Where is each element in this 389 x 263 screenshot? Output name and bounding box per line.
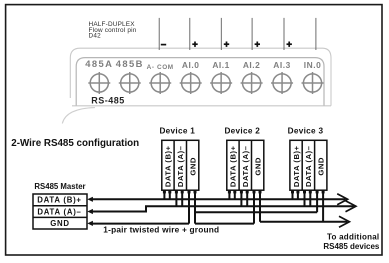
svg-text:DATA (B)+: DATA (B)+: [164, 145, 173, 187]
svg-text:AI.0: AI.0: [182, 60, 200, 70]
svg-text:GND: GND: [253, 157, 262, 176]
svg-text:Device 3: Device 3: [288, 126, 324, 135]
svg-text:A- COM: A- COM: [147, 64, 174, 71]
svg-text:RS485 Master: RS485 Master: [34, 182, 85, 191]
svg-text:DATA (B)+: DATA (B)+: [37, 196, 82, 205]
svg-text:1-pair twisted wire + ground: 1-pair twisted wire + ground: [103, 225, 219, 235]
svg-text:485A: 485A: [85, 58, 113, 69]
svg-text:AI.1: AI.1: [212, 60, 230, 70]
svg-text:DATA (A)–: DATA (A)–: [241, 145, 250, 187]
svg-text:IN.0: IN.0: [304, 60, 322, 70]
svg-text:GND: GND: [188, 157, 197, 176]
svg-text:DATA (A)–: DATA (A)–: [176, 145, 185, 187]
svg-text:To additional: To additional: [327, 232, 379, 241]
svg-text:2-Wire RS485 configuration: 2-Wire RS485 configuration: [11, 138, 139, 149]
svg-text:D42: D42: [89, 33, 102, 40]
svg-text:DATA (A)–: DATA (A)–: [37, 208, 81, 217]
svg-text:AI.3: AI.3: [273, 60, 291, 70]
svg-text:Device 1: Device 1: [159, 126, 195, 135]
svg-text:RS485 devices: RS485 devices: [323, 242, 380, 251]
svg-text:GND: GND: [317, 157, 326, 176]
svg-text:485B: 485B: [116, 58, 144, 69]
svg-text:GND: GND: [50, 219, 70, 228]
svg-text:Device 2: Device 2: [224, 126, 260, 135]
svg-text:DATA (B)+: DATA (B)+: [292, 145, 301, 187]
svg-text:AI.2: AI.2: [243, 60, 261, 70]
svg-text:RS-485: RS-485: [91, 96, 125, 106]
svg-text:DATA (B)+: DATA (B)+: [229, 145, 238, 187]
svg-text:DATA (A)–: DATA (A)–: [304, 145, 313, 187]
